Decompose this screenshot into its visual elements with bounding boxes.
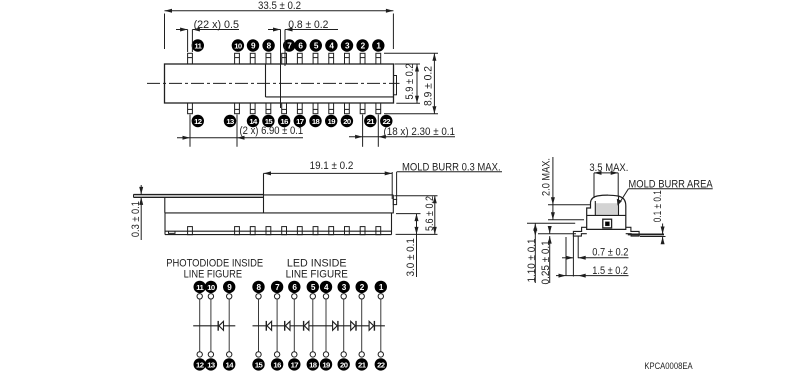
extension line lead 21 (2.30) [362, 115, 364, 147]
extension line (2.0 upper) [548, 204, 591, 206]
side view: right section top edge [264, 194, 394, 196]
svg-text:(2 x) 6.90 ± 0.1: (2 x) 6.90 ± 0.1 [240, 125, 304, 137]
LED figure: pin 1 open terminal [378, 294, 383, 299]
extension line (3.0 top) [396, 213, 421, 215]
LED figure: pin 8 terminal circle (top) [252, 281, 264, 293]
top view: pin number circle 20 (lower row) [341, 115, 353, 127]
top view: pin number circle 22 (lower row) [380, 115, 392, 127]
end view: right gull-wing lead [626, 227, 639, 236]
extension line (1.5 left) [565, 237, 567, 276]
extension line (0.5 right) [191, 30, 193, 53]
LED figure: wire pin 2 to pin 21 [361, 299, 363, 352]
top view: package body outline [165, 64, 394, 103]
svg-text:10: 10 [207, 283, 215, 292]
end view: inner filled square [605, 222, 609, 226]
svg-text:16: 16 [273, 360, 281, 369]
LED figure: pin 6 terminal circle (top) [288, 281, 300, 293]
extension line (1.10 top) [527, 222, 575, 224]
svg-text:8.9 ± 0.2: 8.9 ± 0.2 [423, 66, 435, 106]
side view: lead foot 9 [345, 227, 350, 235]
top view: lower lead 18 [313, 103, 318, 114]
svg-text:17: 17 [291, 360, 299, 369]
side view: lead foot 10 [360, 227, 365, 235]
extension line (mold burr right) [396, 172, 398, 200]
photodiode figure: wire pin 10 to pin 13 [210, 299, 212, 352]
photodiode figure: photodiode D0 (cathode bar left) [217, 321, 219, 331]
LED figure: pin 15 open terminal [256, 352, 261, 357]
svg-text:LINE FIGURE: LINE FIGURE [286, 269, 348, 281]
LED figure: pin 2 terminal circle (top) [356, 281, 368, 293]
top view: upper lead 4 [329, 53, 334, 64]
LED figure: pin 22 open terminal [378, 352, 383, 357]
side view: lead foot 5 [282, 227, 287, 235]
top view: mold parting vertical edge [265, 64, 267, 97]
LED figure: pin 6 open terminal [292, 294, 297, 299]
svg-text:0.7 ± 0.2: 0.7 ± 0.2 [592, 247, 628, 259]
top view: lower lead 22 [376, 103, 381, 114]
LED figure: wire pin 1 to pin 22 [380, 299, 382, 352]
LED figure: LED D4 (cathode bar right) [337, 321, 339, 331]
LED figure: pin 18 open terminal [310, 352, 315, 357]
photodiode figure: wire pin 9 to pin 14 [228, 299, 230, 352]
top view: upper lead 6 [297, 53, 302, 64]
top view: lower lead 19 [329, 103, 334, 114]
top view: pin number circle 11 (upper row) [192, 39, 204, 51]
top view: pin number circle 6 (upper row) [294, 39, 306, 51]
top view: pin number circle 16 (lower row) [278, 115, 290, 127]
LED figure: wire pin 5 to pin 18 [312, 299, 314, 352]
svg-text:3.5 MAX.: 3.5 MAX. [589, 162, 628, 174]
extension line (5.9 top) [395, 63, 421, 65]
svg-text:22: 22 [383, 117, 391, 126]
end view: inner mold left edge [594, 201, 596, 215]
side view: bottom of upper body [165, 212, 393, 214]
photodiode figure: pin 11 terminal circle (top) [194, 281, 206, 293]
svg-text:19: 19 [328, 117, 336, 126]
top view: right-edge gate tab [394, 76, 397, 95]
top view: upper lead 5 [313, 53, 318, 64]
LED figure: pin 17 open terminal [292, 352, 297, 357]
side view: lead foot 6 [297, 227, 302, 235]
svg-text:KPCA0008EA: KPCA0008EA [644, 361, 692, 371]
extension line (5.6 bottom / seating) [396, 233, 438, 235]
photodiode figure: pin 14 terminal circle (bottom) [223, 358, 235, 370]
side view: lead foot 2 [235, 227, 240, 235]
top view: pin number circle 4 (upper row) [325, 39, 337, 51]
LED figure: pin 19 terminal circle (bottom) [320, 358, 332, 370]
top view: pin number circle 18 (lower row) [309, 115, 321, 127]
svg-text:12: 12 [194, 117, 202, 126]
svg-text:13: 13 [226, 117, 234, 126]
top view: pin number circle 19 (lower row) [325, 115, 337, 127]
top view: pin number circle 9 (upper row) [247, 39, 259, 51]
top view: upper lead 10 [235, 53, 240, 64]
side view: mold step vertical / 19.1 extension [263, 173, 265, 213]
top view: pin number circle 5 (upper row) [310, 39, 322, 51]
svg-text:12: 12 [196, 360, 204, 369]
LED figure: pin 20 terminal circle (bottom) [338, 358, 350, 370]
top view: lower lead 17 [297, 103, 302, 114]
LED figure: pin 21 open terminal [359, 352, 364, 357]
LED figure: wire pin 7 to pin 16 [276, 299, 278, 352]
photodiode figure: pin 13 terminal circle (bottom) [205, 358, 217, 370]
extension line (19.1 right / burr left) [391, 172, 393, 199]
extension line (3.5 left) [593, 173, 595, 198]
svg-text:2.0 MAX.: 2.0 MAX. [541, 158, 553, 196]
end view: mold burr area shaded region [595, 203, 618, 215]
LED figure: wire pin 3 to pin 20 [343, 299, 345, 352]
LED figure: pin 19 open terminal [323, 352, 328, 357]
LED figure: wire pin 4 to pin 19 [325, 299, 327, 352]
top view: upper lead 9 [250, 53, 255, 64]
extension line (8.9 bottom) [384, 113, 438, 115]
side view: body left edge [164, 197, 166, 213]
extension line (0.5 left) [187, 30, 189, 53]
svg-text:19.1 ± 0.2: 19.1 ± 0.2 [310, 160, 354, 172]
top view: pin number circle 3 (upper row) [341, 39, 353, 51]
svg-text:20: 20 [340, 360, 348, 369]
LED figure: LED D6 (cathode bar right) [373, 321, 375, 331]
top view: upper lead 1 [376, 53, 381, 64]
LED figure: LED D5 (cathode bar right) [355, 321, 357, 331]
top view: pin number circle 13 (lower row) [224, 115, 236, 127]
LED figure: pin 3 terminal circle (top) [338, 281, 350, 293]
LED figure: pin 7 open terminal [274, 294, 279, 299]
LED figure: pin 7 terminal circle (top) [271, 281, 283, 293]
extension line (8.9 top) [384, 52, 438, 54]
top view: lower lead 12 [188, 103, 193, 114]
extension line (0.1 lower) [640, 236, 666, 238]
end view: center die pad square [603, 219, 612, 228]
LED figure: pin 21 terminal circle (bottom) [356, 358, 368, 370]
svg-text:0.3 ± 0.1: 0.3 ± 0.1 [130, 201, 142, 237]
LED figure: pin 1 terminal circle (top) [375, 281, 387, 293]
side view: lead foot 7 [313, 227, 318, 235]
side view: lower body block [164, 213, 166, 235]
svg-text:1.5 ± 0.2: 1.5 ± 0.2 [592, 265, 628, 277]
top view: lower lead 13 [235, 103, 240, 114]
extension line (0.7 left) [572, 235, 574, 277]
top view: pin number circle 12 (lower row) [192, 115, 204, 127]
side view: lead foot 3 [250, 227, 255, 235]
top view: lower lead 21 [360, 103, 365, 114]
LED figure: pin 20 open terminal [341, 352, 346, 357]
svg-text:10: 10 [234, 42, 242, 51]
LED figure: pin 16 terminal circle (bottom) [271, 358, 283, 370]
side view: lead foot 11 [376, 227, 381, 235]
LED figure: pin 4 open terminal [323, 294, 328, 299]
top view: pin number circle 7 (upper row) [283, 39, 295, 51]
end view: inner mold right edge [618, 196, 620, 215]
side view: lead foot 1 [188, 227, 193, 235]
top view: pin number circle 14 (lower row) [247, 115, 259, 127]
top view: pin number circle 8 (upper row) [262, 39, 274, 51]
LED figure: pin 2 open terminal [359, 294, 364, 299]
extension line (2.0 lower) [548, 219, 584, 221]
extension line lead 12 (6.90) [189, 115, 191, 147]
svg-text:22: 22 [377, 360, 385, 369]
LED figure: pin 5 open terminal [310, 294, 315, 299]
end view: seating plane reference (thick) [628, 233, 664, 235]
extension line lead 13 (6.90) [236, 115, 238, 147]
top view: mold step line (right section) [266, 96, 394, 98]
LED figure: pin 8 open terminal [256, 294, 261, 299]
top view: pin number circle 15 (lower row) [262, 115, 274, 127]
top view: lower lead 15 [266, 103, 271, 114]
LED figure: pin 4 terminal circle (top) [320, 281, 332, 293]
photodiode figure: pin 14 open terminal [227, 352, 232, 357]
LED figure: pin 16 open terminal [274, 352, 279, 357]
extension line (0.8 right) [284, 30, 286, 67]
top view: lower lead 20 [345, 103, 350, 114]
svg-text:13: 13 [207, 360, 215, 369]
top view: pin number circle 10 (upper row) [232, 39, 244, 51]
LED figure: wire pin 8 to pin 15 [258, 299, 260, 352]
side view: small lead hook at left end [169, 231, 176, 233]
top view: upper lead 7 [282, 53, 287, 64]
photodiode figure: pin 12 terminal circle (bottom) [194, 358, 206, 370]
svg-text:1.10 ± 0.1: 1.10 ± 0.1 [526, 238, 538, 282]
extension line lead 22 (2.30) [377, 115, 379, 147]
side view: top leadframe plate [134, 195, 264, 197]
extension line (5.9 bottom) [396, 102, 420, 104]
extension line (0.7 right) [577, 237, 579, 259]
svg-text:3.0 ± 0.1: 3.0 ± 0.1 [405, 238, 417, 277]
LED figure: wire pin 6 to pin 17 [293, 299, 295, 352]
top view: pin number circle 17 (lower row) [294, 115, 306, 127]
top view: pin number circle 1 (upper row) [372, 39, 384, 51]
LED figure: horizontal bus wire [253, 325, 385, 327]
photodiode figure: pin 10 terminal circle (top) [205, 281, 217, 293]
top view: upper lead 2 [360, 53, 365, 64]
extension line right (33.5) [392, 14, 394, 50]
LED figure: LED D1 (cathode bar left) [265, 321, 267, 331]
photodiode figure: pin 13 open terminal [208, 352, 213, 357]
top view: lower lead 16 [282, 103, 287, 114]
photodiode figure: pin 11 open terminal [197, 294, 202, 299]
end view: inner mold bottom line [587, 214, 626, 216]
photodiode figure: pin 9 terminal circle (top) [223, 281, 235, 293]
svg-text:LINE FIGURE: LINE FIGURE [184, 269, 243, 281]
extension line (3.5 right) [617, 173, 619, 197]
side view: lead foot 4 [266, 227, 271, 235]
svg-text:5.9 ± 0.2: 5.9 ± 0.2 [404, 64, 416, 100]
LED figure: LED D2 (cathode bar left) [284, 321, 286, 331]
photodiode figure: pin 12 open terminal [197, 352, 202, 357]
photodiode figure: pin 10 open terminal [208, 294, 213, 299]
svg-text:20: 20 [343, 117, 351, 126]
LED figure: pin 3 open terminal [341, 294, 346, 299]
top view: upper lead 8 [266, 53, 271, 64]
top view: upper lead 11 [188, 53, 193, 64]
LED figure: LED D3 (cathode bar left) [303, 321, 305, 331]
end view: package outline with dome top [587, 195, 626, 229]
LED figure: pin 5 terminal circle (top) [307, 281, 319, 293]
side view: right-edge mold burr tab [393, 199, 396, 204]
side view: right edge [392, 195, 394, 214]
svg-text:0.1 ± 0.1: 0.1 ± 0.1 [652, 190, 664, 222]
top view: lower lead 14 [250, 103, 255, 114]
top view: horizontal centerline (dash-dot) [147, 82, 400, 84]
LED figure: pin 22 terminal circle (bottom) [375, 358, 387, 370]
LED figure: pin 15 terminal circle (bottom) [252, 358, 264, 370]
top view: pin number circle 21 (lower row) [364, 115, 376, 127]
svg-text:0.25 ± 0.1: 0.25 ± 0.1 [540, 240, 552, 284]
side view: lead foot 8 [329, 227, 334, 235]
photodiode figure: wire pin 11 to pin 12 [199, 299, 201, 352]
extension line (5.6 top) [394, 195, 437, 197]
extension line (0.8 left, long) [280, 30, 282, 109]
top view: upper lead 3 [345, 53, 350, 64]
end view: left gull-wing lead [573, 227, 586, 236]
svg-text:19: 19 [322, 360, 330, 369]
photodiode figure: horizontal bus wire [193, 325, 235, 327]
extension line (0.25 top) [538, 233, 576, 235]
LED figure: pin 18 terminal circle (bottom) [307, 358, 319, 370]
photodiode figure: pin 9 open terminal [227, 294, 232, 299]
extension line left (33.5) [164, 14, 166, 50]
top view: pin number circle 2 (upper row) [356, 39, 368, 51]
LED figure: pin 17 terminal circle (bottom) [288, 358, 300, 370]
